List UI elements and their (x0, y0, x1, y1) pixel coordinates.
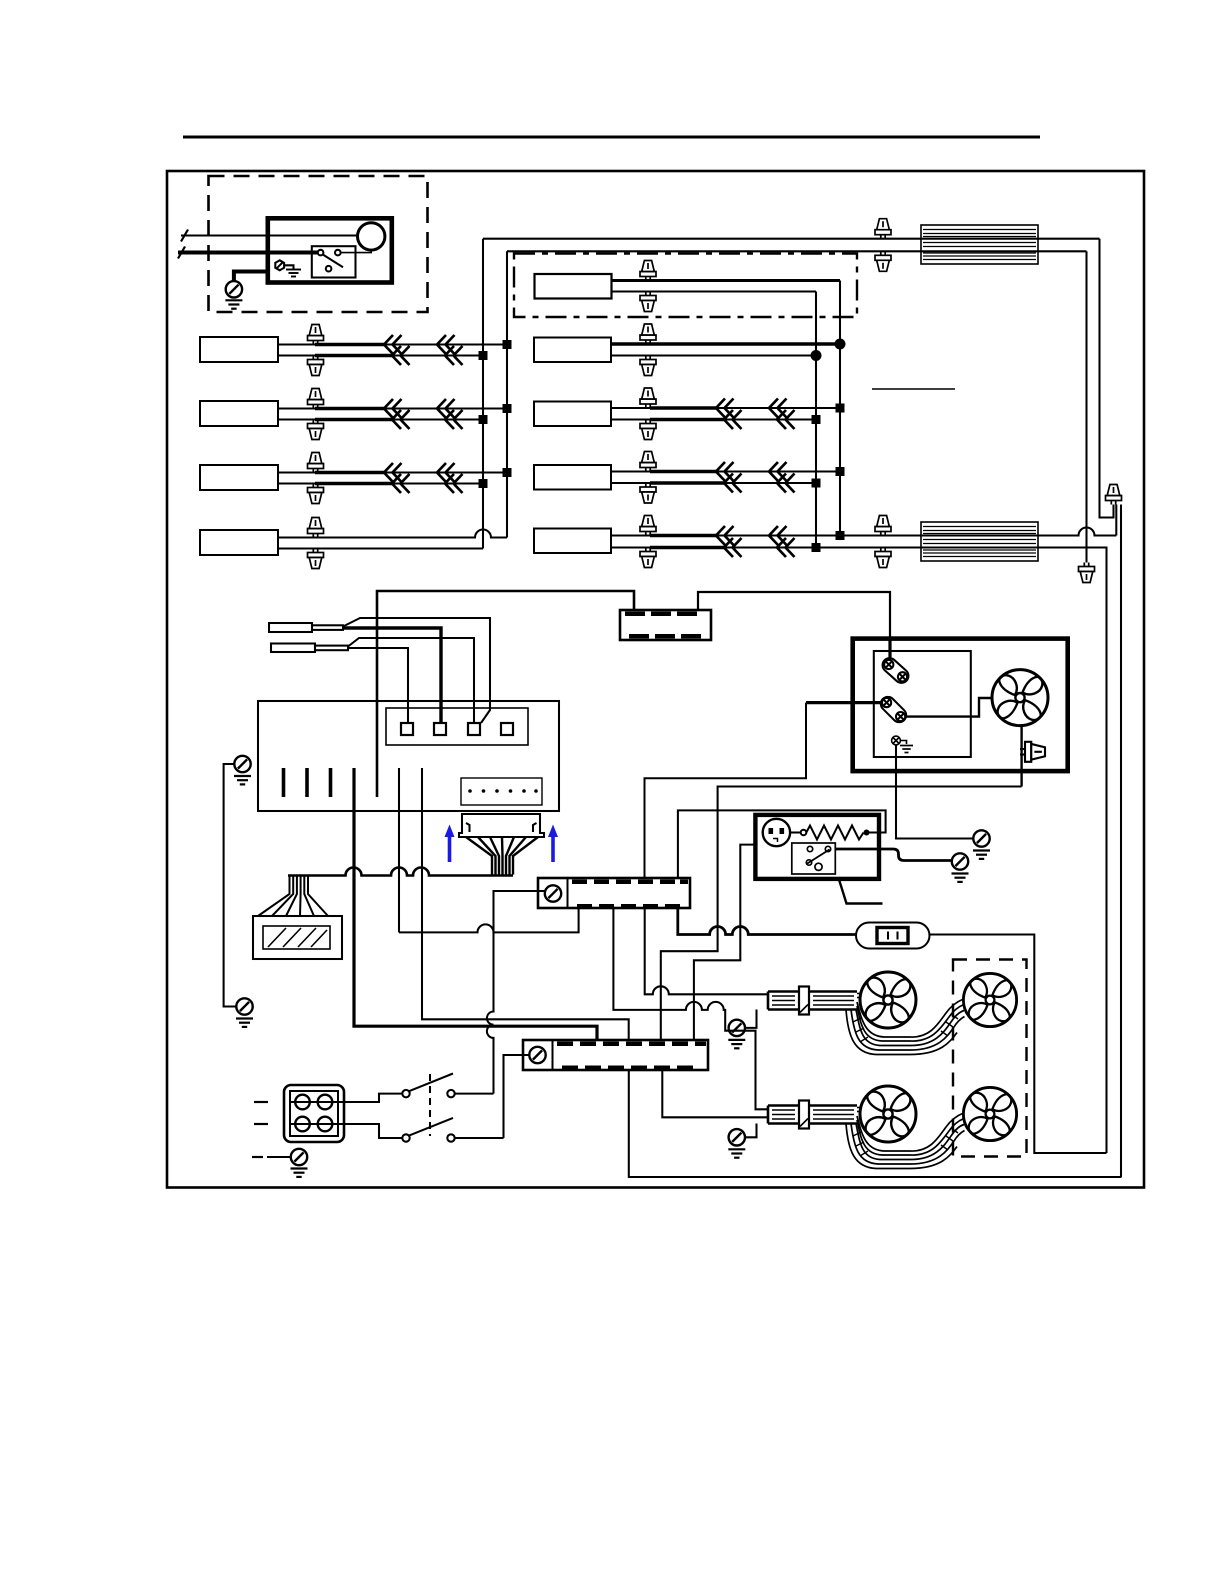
wire C top thin to bus (717, 407, 840, 409)
thermostat terminals (769, 828, 785, 834)
small harness fan-out to eyebrow connector (258, 876, 328, 917)
lower wire loom (768, 1101, 857, 1129)
junction squares on right buses (812, 404, 845, 553)
wire: fan motor lead down (1020, 726, 1022, 787)
connector on L4 top (308, 518, 324, 538)
connector pair at element E1 (875, 219, 891, 239)
wire: CB1 to control board (377, 591, 634, 797)
lamp sockets (295, 1095, 332, 1132)
wire L1 bottom (bold) (315, 354, 393, 358)
right bus A (x=816) (815, 292, 817, 548)
ground (condenser internal) (900, 746, 913, 753)
condenser fan motor M1 (992, 670, 1048, 726)
wire L3 bottom (bold) (315, 482, 393, 486)
overload protector OL1 (880, 655, 912, 685)
junction dot B bottom (811, 350, 822, 361)
wire L3 top thin to bus (385, 471, 507, 473)
door switch SW1 arm (409, 1074, 453, 1092)
wire C bottom (bold) (650, 418, 725, 422)
wire: resistor link (678, 810, 886, 878)
wire E bottom thin to bus (725, 546, 816, 548)
fan compartment dashed enclosure (953, 960, 1027, 1157)
connector on L2 top (308, 389, 324, 409)
wire: PM1 screw to lamp switch riser (hops two board wires) (487, 891, 545, 1094)
ground (225, 300, 242, 308)
wire: bus B corner to element E1 bottom feed (507, 250, 1087, 252)
splice connector (up) to fan feed (1106, 485, 1122, 505)
harness wrap ticks (upper) (853, 1014, 958, 1042)
left bus A (x=483) (482, 239, 484, 549)
compartment fan M5 (963, 1087, 1016, 1140)
wire: PM1 output to upper loom (hops condenser riser) (645, 908, 768, 994)
diagram border (167, 171, 1144, 1188)
compressor terminal board (874, 651, 971, 757)
junction squares on left buses (479, 340, 512, 488)
wire: lamp row 1 (290, 1101, 344, 1103)
wire: lamp switch 2 riser to PM2 screw (504, 1055, 530, 1138)
row D box (534, 465, 611, 490)
rocker marks (887, 932, 889, 940)
wire C bottom (611, 418, 655, 420)
chevrons L1 top (384, 335, 402, 354)
wire B top (bold) (611, 342, 840, 345)
upper loom ground stub (745, 1010, 757, 1028)
wire A bottom (612, 290, 817, 292)
connector on L3 bottom (308, 484, 324, 504)
wire L4 top (hops left bus, joins right bus) (278, 530, 507, 538)
wire E bottom (611, 546, 655, 548)
wire: T1 bold lead to board pin 2 (343, 628, 441, 723)
wire: relay feed riser from resistor line (645, 703, 807, 878)
wire L3 bottom (278, 482, 320, 484)
switch arm (807, 850, 830, 865)
lower loom ground stub (745, 1124, 757, 1138)
row L4 box (200, 530, 278, 555)
right bus B (x=840) (839, 281, 841, 536)
pin header on board (386, 708, 528, 745)
header pin 2 (434, 723, 446, 735)
junction box J1 (bold) (268, 218, 392, 282)
ground (236, 1019, 253, 1027)
power module PM1 (538, 878, 690, 909)
switch S1 arm (323, 254, 343, 267)
wire L1 top (bold) (315, 343, 385, 347)
wire: T2 thin lead to board pin 3 (348, 638, 474, 723)
wire D top (611, 470, 655, 472)
wire B bottom (611, 354, 816, 356)
wire: board bold output (to PM2) (354, 768, 597, 1040)
switch gang link (dashed) (429, 1074, 431, 1136)
switch contact a (807, 846, 812, 851)
connector on L1 bottom (308, 356, 324, 376)
header pin 4 (501, 723, 513, 735)
thermostat cam mark (773, 839, 778, 843)
wire: splice down to bottom loop (1120, 505, 1122, 1178)
wire: PM1 output to ON/OFF switch (hops two risers) (678, 908, 856, 935)
connector on L2 bottom (308, 420, 324, 440)
ground screw (condenser) (973, 830, 989, 846)
wire: SW2 to riser (455, 1137, 504, 1139)
connector on C bottom (640, 420, 656, 440)
header pin 3 (468, 723, 480, 735)
door switch SW1 left contact (402, 1090, 409, 1097)
connector on B top (640, 324, 656, 344)
wire: PM1 output to lower loom (jogged) (613, 908, 768, 1109)
wire L1 bottom (278, 354, 320, 356)
switch S1 right contact (335, 250, 341, 256)
connector on L3 top (308, 453, 324, 473)
lower harness straight leads into fan (857, 1108, 861, 1112)
chevrons C top (716, 399, 734, 418)
chassis bond hex screw (275, 260, 284, 270)
lamp block housing (284, 1085, 344, 1142)
door switch SW2 arm (409, 1118, 453, 1136)
thermostat enclosure (bold) (755, 815, 879, 879)
wire D top thin to bus (717, 470, 840, 472)
wire: E2 top riser to splice (1115, 505, 1117, 536)
connector on D bottom (640, 483, 656, 503)
wire: line cord hot (bold) (178, 251, 318, 255)
ground (973, 851, 990, 859)
connector on L1 top (308, 325, 324, 345)
wire L2 bottom (bold) (315, 418, 393, 422)
row L2 box (200, 401, 278, 426)
inline connector on fan lead (1020, 742, 1045, 762)
relay RY1 (878, 694, 909, 725)
wire: board output to H2 (398, 768, 400, 932)
display window (hatched) (263, 926, 330, 949)
wire H1: harness run to small connector (hops board outputs) (288, 868, 513, 876)
row L1 box (200, 337, 278, 362)
resistor R1 (801, 826, 870, 840)
door switch SW2 left contact (402, 1134, 409, 1141)
connector on A top (640, 261, 656, 281)
top rule (183, 136, 1040, 139)
connector on E bottom (640, 548, 656, 568)
ON/OFF rocker (877, 928, 908, 944)
left bus B (x=507) (506, 251, 508, 537)
wire: board output (to PM2) (422, 768, 629, 1040)
row C box (534, 402, 611, 427)
door switch SW1 right contact (447, 1090, 454, 1097)
ground screw (board lower) (236, 998, 252, 1014)
wire E bottom (bold) (650, 546, 725, 550)
evaporator fan M4 (860, 1086, 916, 1142)
wire D bottom thin to bus (725, 482, 816, 484)
heating element E2 (921, 522, 1038, 561)
lamp DS1 (358, 223, 385, 250)
wire L3 top (278, 471, 320, 473)
wire: thermostat switch out (bold) to ground screw (835, 849, 951, 861)
connector pair at element E2 (875, 516, 891, 536)
ground bus (board) (224, 764, 236, 1007)
connector harness fan-out (466, 837, 538, 875)
wire: hex screw to ground (284, 265, 293, 269)
wire L1 top (278, 343, 320, 345)
wire: T1 thin lead to board pin 3 (343, 618, 490, 723)
board 8-way connector shell (459, 814, 544, 837)
row L3 box (200, 465, 278, 490)
wire: thermostat feed to PM2 (694, 845, 756, 1040)
connector on L4 bottom (308, 549, 324, 569)
switch contact c (806, 860, 811, 865)
wire: E1 second lead down to splice (1085, 251, 1087, 562)
wire C bottom thin to bus (725, 418, 816, 420)
wire: E2 bottom feed from bus A corner to bottom right (816, 548, 1107, 1154)
cord break slash (178, 247, 185, 259)
label rule (component name) (872, 388, 955, 390)
upper harness sweep to compartment fan (846, 999, 965, 1055)
wire: switch to E2 return loop (930, 935, 1107, 1154)
PM2 terminal screw (529, 1047, 545, 1063)
wire: element E2 top feed (from bus B corner, hops E1 lead) (840, 528, 1116, 536)
wire: T2 lead to board pin 1 (348, 648, 408, 723)
lamp block inner frame (290, 1091, 338, 1136)
callout leader to thermostat (839, 880, 883, 904)
wire D bottom (611, 482, 655, 484)
blue arrow left (445, 825, 455, 863)
wire: line cord neutral (181, 234, 358, 236)
chevrons L3 bottom (392, 474, 410, 493)
eyebrow / display connector (253, 916, 342, 959)
wire: CB1 feed into overload (bold) (888, 640, 891, 660)
connector block CB1 (620, 610, 711, 640)
light switch S1 box (312, 246, 356, 277)
cord break slash (181, 230, 188, 242)
wire: relay to fan motor (905, 698, 992, 717)
internal ground screw (892, 736, 901, 745)
row B box (534, 338, 611, 363)
lower harness sweep to compartment fan (846, 1113, 965, 1169)
thermostat switch box (792, 843, 836, 874)
splice connector (down) on E1 lead (1079, 563, 1095, 583)
ground (junction box internal) (286, 270, 301, 277)
chevrons L2 top (384, 399, 402, 418)
wire: switch to lamp (341, 250, 372, 253)
ground (291, 1169, 308, 1177)
ice maker dash-dot enclosure (514, 254, 857, 318)
wire: E1 return down right side (1100, 239, 1114, 518)
supply stub dashes (254, 1101, 268, 1103)
switch contact b (825, 846, 830, 851)
wire: PM2 output to lower loom (662, 1070, 768, 1117)
chevrons D top (716, 462, 734, 481)
upper harness straight leads into fan (857, 994, 861, 998)
wire L3 bottom thin to bus (393, 482, 483, 484)
ground (952, 874, 969, 882)
wire A top (bold to right bus) (612, 279, 841, 282)
wire L2 top (bold) (315, 407, 385, 411)
harness wrap ticks (lower) (853, 1128, 958, 1156)
compartment fan M3 (963, 973, 1016, 1026)
board terminal pins (284, 768, 331, 797)
wire: SW1 to riser (455, 1093, 494, 1095)
ground screw (board upper) (234, 756, 250, 772)
wire: PM2 return loop to splice lead (629, 1070, 1122, 1177)
connector on D top (640, 452, 656, 472)
thermostat body (763, 819, 790, 846)
ground (728, 1149, 745, 1157)
chevrons L2 bottom (392, 410, 410, 429)
wire E top (bold) (650, 534, 717, 538)
ground screw (lower loom) (729, 1129, 745, 1145)
wire L2 top thin to bus (385, 407, 507, 409)
ground screw (cord) (226, 281, 242, 297)
row E box (534, 529, 611, 554)
ground (234, 776, 251, 784)
board indicator strip (461, 778, 542, 805)
switch pivot (815, 863, 822, 870)
switch S1 left contact (318, 250, 324, 256)
wire: lamp row 2 (290, 1123, 344, 1125)
wire: ground screw tail (900, 741, 906, 745)
chevrons E bottom (724, 538, 742, 557)
wire L1 top thin to bus (385, 343, 507, 345)
chevrons L1 bottom (392, 346, 410, 365)
PM1 terminal screw (545, 885, 561, 901)
connector on E top (640, 516, 656, 536)
door switch SW2 right contact (447, 1134, 454, 1141)
wire D bottom (bold) (650, 481, 725, 485)
wire E top thin to bus (717, 534, 840, 536)
control board PCB (258, 701, 559, 811)
wire C top (bold) (650, 406, 717, 410)
connector on C top (640, 388, 656, 408)
wire: lamp ground stub (267, 1156, 291, 1158)
wire: lamp row2 to door switch 2 (344, 1124, 402, 1138)
wire: thermostat to resistor (790, 831, 801, 833)
wire L2 bottom thin to bus (393, 418, 483, 420)
wire L2 top (278, 407, 320, 409)
wire L3 top (bold) (315, 471, 385, 475)
ground screw (lamp block) (291, 1149, 307, 1165)
wire C top (611, 407, 655, 409)
wire: fan lead to PM2 (via jogs) (661, 787, 1022, 1041)
ON/OFF switch body (856, 923, 930, 949)
ground screw (upper loom) (729, 1020, 745, 1036)
upper wire loom (768, 987, 857, 1015)
chevrons L3 top (384, 463, 402, 482)
connector on B bottom (640, 356, 656, 376)
ground screw (thermostat) (952, 853, 968, 869)
chevrons E top (716, 526, 734, 545)
spade terminal T1 (269, 623, 343, 632)
power cord / interior light assembly dashed enclosure (209, 176, 428, 312)
condenser unit enclosure (bold) (853, 639, 1068, 772)
wire: ground lead (bold) (234, 272, 268, 282)
evaporator fan M2 (860, 972, 916, 1028)
chevrons D bottom (724, 474, 742, 493)
wire: CB1 to condenser unit (698, 592, 890, 640)
wire L2 bottom (278, 418, 320, 420)
row A box (ice maker) (535, 274, 612, 299)
ground (728, 1040, 745, 1048)
spade terminal T2 (271, 644, 348, 653)
power module PM2 (523, 1040, 708, 1070)
junction dot B top (835, 339, 846, 350)
blue arrow right (548, 825, 558, 863)
wire: lamp row1 to door switch 1 (344, 1094, 402, 1102)
wire: bus A corner to element E1 top feed (483, 238, 1100, 240)
switch S1 lower contact (326, 266, 332, 272)
wire: feed into relay (bold, from PM1 riser) (806, 701, 882, 704)
chevrons C bottom (724, 410, 742, 429)
wire: condenser ground to external ground screw (896, 745, 973, 839)
header pin 1 (401, 723, 413, 735)
heating element E1 (921, 225, 1038, 264)
connector on A bottom (640, 292, 656, 312)
wire D top (bold) (650, 470, 717, 474)
wire H2: board to power module PM1 (hops switch riser) (399, 908, 579, 932)
wire L1 bottom thin to bus (393, 354, 483, 356)
wire L4 bottom to left bus corner (278, 547, 483, 549)
wire E top (611, 534, 655, 536)
